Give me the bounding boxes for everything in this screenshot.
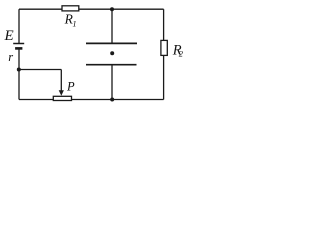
wire branch junction to elbow: [19, 69, 61, 71]
wire top horizontal: [19, 8, 164, 10]
svg-text:1: 1: [72, 18, 76, 28]
wire bottom horizontal: [19, 99, 164, 101]
wire left vertical lower (battery to bottom wire): [18, 48, 20, 99]
svg-text:E: E: [4, 28, 14, 44]
battery E short plate: [15, 47, 22, 50]
node junction capacitor branch top: [110, 7, 114, 11]
rheostat P box: [53, 96, 71, 100]
svg-text:P: P: [66, 80, 75, 94]
node junction capacitor branch bottom: [110, 98, 114, 102]
resistor R1 box: [62, 6, 79, 11]
node junction battery to wiper branch: [17, 68, 21, 72]
battery E long plate: [13, 43, 24, 45]
wire left vertical upper (corner to battery): [18, 9, 20, 43]
resistor R2 box: [161, 40, 167, 55]
wiper arrowhead pointing at P: [59, 90, 64, 96]
svg-text:r: r: [8, 50, 13, 64]
capacitor top plate: [86, 42, 137, 44]
wire elbow down to wiper arrow stem: [60, 70, 62, 92]
svg-text:2: 2: [179, 49, 184, 59]
wire capacitor stem upper: [111, 9, 113, 43]
wire capacitor stem lower: [111, 65, 113, 100]
capacitor bottom plate: [86, 64, 137, 66]
charged particle dot between plates: [110, 51, 114, 55]
wire right vertical: [163, 9, 165, 99]
